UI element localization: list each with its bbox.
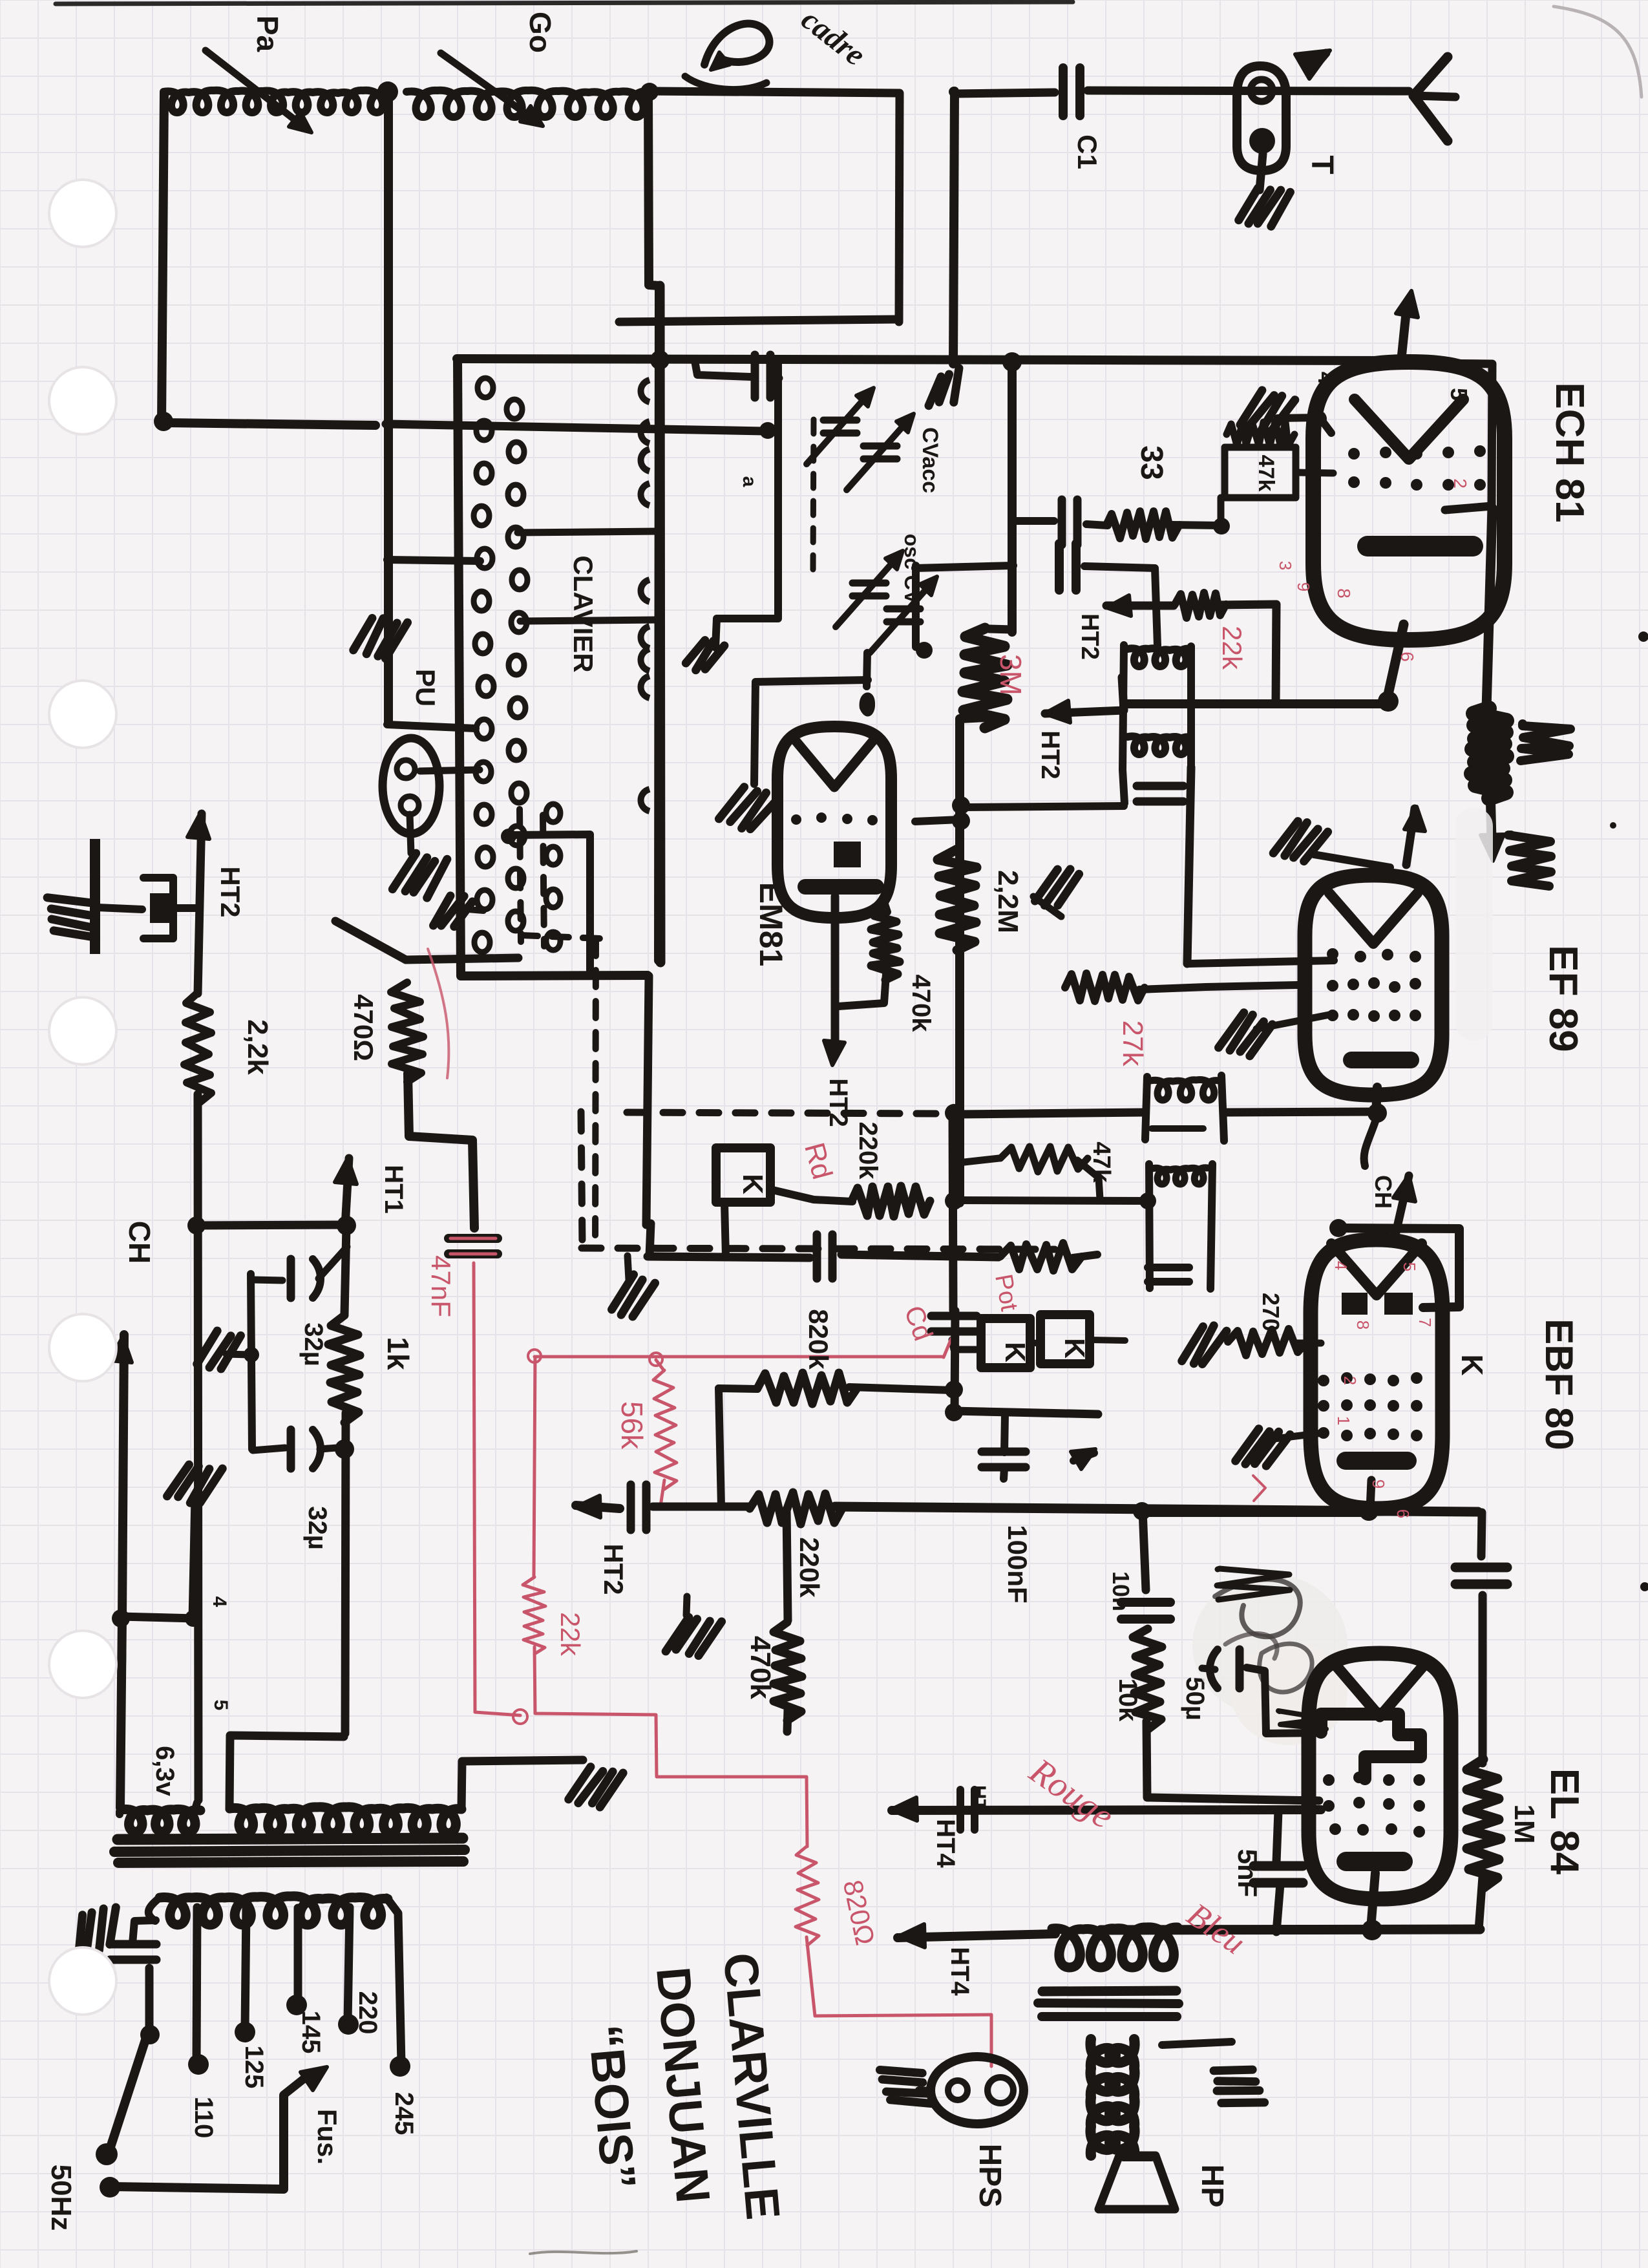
tap 245 xyxy=(386,1898,410,2077)
label HT2 ift1 xyxy=(1036,730,1064,779)
svg-text:9: 9 xyxy=(1369,1479,1388,1489)
svg-text:22k: 22k xyxy=(555,1612,586,1657)
capacitor 32u b xyxy=(291,1430,321,1468)
wire det row2 xyxy=(841,1255,998,1257)
wire 27k lead xyxy=(1139,985,1297,990)
label HT2 em81 xyxy=(824,1078,852,1127)
switch K box 3 xyxy=(1041,1315,1090,1364)
tube EF89 V xyxy=(1329,893,1417,944)
svg-text:EM81: EM81 xyxy=(753,882,789,967)
tube EBF80 rows xyxy=(1318,1372,1422,1441)
wire 10k down xyxy=(1146,1721,1319,1801)
svg-text:“BOIS”: “BOIS” xyxy=(578,2022,646,2191)
capacitor hv block bar xyxy=(90,839,100,954)
OPT core lines xyxy=(1038,1991,1179,2017)
IFT1 cap xyxy=(1137,786,1183,801)
svg-text:HT2: HT2 xyxy=(1036,730,1064,779)
wire cap to IFT1 xyxy=(1084,566,1157,646)
svg-text:56k: 56k xyxy=(615,1401,649,1450)
inductor bleu choke xyxy=(1052,1927,1178,1967)
capacitor link xyxy=(1059,544,1076,590)
node HT1 xyxy=(337,1216,356,1235)
svg-text:K: K xyxy=(1455,1354,1489,1375)
IFT1 long drop xyxy=(1187,767,1191,964)
label 470k em81 xyxy=(907,975,935,1033)
arrow at 100nF xyxy=(1071,1449,1095,1469)
svg-text:2: 2 xyxy=(1340,1376,1360,1385)
wire antenna row2 xyxy=(1088,90,1409,91)
punch holes xyxy=(49,180,116,2015)
label cadre xyxy=(795,2,872,72)
tap 125 xyxy=(235,1909,255,2042)
svg-text:22k: 22k xyxy=(1217,626,1247,670)
wire grid row el84 xyxy=(892,1810,1321,1810)
trimmer CVacc 2 xyxy=(847,414,914,490)
vertical 1476 xyxy=(953,1113,953,1310)
label K ebf xyxy=(1455,1354,1489,1375)
tube EL84 cathode bar xyxy=(1336,1852,1413,1871)
capacitor at 33 xyxy=(1062,500,1077,545)
wire clavier slant arm xyxy=(335,921,518,960)
tube EF89 stem xyxy=(1364,1087,1387,1166)
node junction Pa-Go xyxy=(154,81,659,431)
wire 1M bottom xyxy=(1479,1877,1483,1930)
label 470 ohm xyxy=(348,994,379,1061)
white streak over EF89 xyxy=(1455,808,1493,1041)
wire K2-K3 xyxy=(1031,1342,1041,1344)
label 10k xyxy=(1114,1679,1142,1722)
resistor 47k det xyxy=(1000,1243,1082,1271)
wire det row elbow xyxy=(650,1224,651,1256)
transformer core xyxy=(114,1838,465,1863)
svg-text:4: 4 xyxy=(1313,372,1340,385)
svg-text:470Ω: 470Ω xyxy=(348,994,379,1061)
capacitor line filter xyxy=(110,1944,156,1960)
label 32u b xyxy=(303,1506,332,1550)
arrow bus end up xyxy=(1396,291,1418,361)
svg-text:cadre: cadre xyxy=(795,2,872,72)
ground at oscillator bus xyxy=(353,615,408,661)
label CH left xyxy=(123,1221,156,1264)
clavier contact column A xyxy=(474,378,494,952)
wire dashed AVC v3 xyxy=(595,939,596,1245)
label 245 xyxy=(390,2092,418,2136)
clavier stub row b xyxy=(520,620,660,621)
wire clavier bus vertical xyxy=(660,286,660,962)
svg-text:K: K xyxy=(999,1342,1031,1362)
wire EF89 plate link xyxy=(960,1112,1145,1114)
ground HPS xyxy=(879,2057,933,2116)
edge specks xyxy=(530,631,1648,2254)
IFT2 left vertical xyxy=(1149,1164,1150,1288)
wire box to grid xyxy=(1296,472,1333,473)
capacitor 100nF xyxy=(982,1415,1026,1479)
wire cap to box xyxy=(773,377,779,378)
svg-text:270: 270 xyxy=(1258,1293,1284,1331)
label 5nF xyxy=(1232,1849,1263,1898)
tap 110 xyxy=(188,1907,209,2075)
tube EBF80 anode blocks xyxy=(1342,1293,1413,1315)
ground hv block xyxy=(47,891,96,944)
wire PU to clavier xyxy=(420,770,480,771)
label pin 5 xyxy=(1446,388,1472,401)
label ECH 81 xyxy=(1547,382,1592,522)
resistor 470k em81 xyxy=(871,910,900,980)
scribble label A xyxy=(1521,724,1570,761)
wire gnd470 xyxy=(686,1596,687,1615)
arrow HT2 2k2 xyxy=(187,813,209,839)
ground OPT xyxy=(1210,2058,1264,2116)
wire 270 to tube xyxy=(1296,1340,1321,1347)
loop antenna cadre symbol xyxy=(685,24,770,90)
wire heater v1 xyxy=(116,1812,123,1814)
red scribbles ebf xyxy=(1253,1476,1265,1501)
label Rd red xyxy=(798,1139,838,1183)
wire heater stub xyxy=(195,1803,197,1809)
connector PU outline xyxy=(383,738,439,834)
label 22k red xyxy=(1217,626,1247,670)
label EM81 xyxy=(753,882,789,967)
clavier wiper contacts on bus xyxy=(641,380,650,811)
node CH bottom xyxy=(112,1609,130,1627)
svg-text:10k: 10k xyxy=(1114,1679,1142,1722)
ground ECH81 g4 xyxy=(1240,387,1295,436)
coil box 68 coil xyxy=(1150,1080,1219,1129)
tube ECH81 cathode bar xyxy=(1357,536,1483,556)
svg-text:EL 84: EL 84 xyxy=(1542,1768,1587,1875)
tube EL84 rows xyxy=(1323,1772,1425,1838)
tap 145 xyxy=(286,1908,307,2015)
label 22k red2 xyxy=(555,1612,586,1657)
label 220 xyxy=(354,1991,382,2035)
wire EBF row out xyxy=(1133,1502,1369,1520)
svg-text:5: 5 xyxy=(1446,388,1472,401)
PU pin bottom xyxy=(401,796,419,814)
svg-text:470k: 470k xyxy=(745,1636,776,1699)
arrow EM81 HT2 xyxy=(824,1041,845,1065)
wire EM81 stem xyxy=(831,896,840,1052)
capacitor C1 xyxy=(1063,68,1080,116)
IFT1 left vertical xyxy=(1123,645,1125,803)
wire gnd stem mid xyxy=(193,1500,195,1620)
node 100nF xyxy=(945,1403,963,1421)
node IFT2 in xyxy=(1139,1192,1156,1209)
resistor 1M xyxy=(1467,1759,1501,1888)
wire 32u rail xyxy=(251,1274,252,1449)
wire K1 to 220k xyxy=(772,1190,852,1202)
coil box 68 sides xyxy=(1145,1076,1224,1141)
resistor 470k det2 xyxy=(774,1622,802,1721)
capacitor Cd xyxy=(931,1316,977,1331)
wire cadre right vertical xyxy=(899,93,900,322)
clavier extra contacts xyxy=(546,804,560,950)
wire stub cap osc xyxy=(695,361,750,377)
node 32u2 xyxy=(335,1439,354,1459)
svg-text:33: 33 xyxy=(1134,445,1168,480)
arrow HT2 ift1 xyxy=(1044,677,1124,723)
svg-text:2,2M: 2,2M xyxy=(992,870,1024,933)
black smudge swirls xyxy=(1215,1569,1326,1729)
label 33 xyxy=(1134,445,1168,480)
resistor 2,2k xyxy=(184,993,211,1104)
wire filter up xyxy=(132,1920,156,1944)
wire plate row el84 xyxy=(1101,1929,1480,1930)
svg-text:1M: 1M xyxy=(1508,1804,1540,1843)
ground ct xyxy=(568,1762,623,1812)
wire cadre left vertical xyxy=(648,90,659,960)
title CLARVILLE xyxy=(713,1951,790,2222)
red wire to HPS xyxy=(807,1937,991,2066)
svg-text:Fus.: Fus. xyxy=(312,2109,343,2165)
svg-text:110: 110 xyxy=(189,2097,218,2139)
label 56k red xyxy=(615,1401,649,1450)
svg-text:HT4: HT4 xyxy=(945,1947,974,1996)
wire 2k2 vertical xyxy=(198,814,202,993)
svg-text:5nF: 5nF xyxy=(1232,1849,1263,1898)
wire prim left hook xyxy=(149,1898,160,1921)
wire HT1 row xyxy=(196,1225,348,1225)
node bus-cadre xyxy=(650,350,670,370)
tube EL84 stem xyxy=(1362,1873,1382,1940)
svg-text:7: 7 xyxy=(1415,1318,1435,1327)
resistor screen fat xyxy=(1472,708,1506,798)
IFT2 cap xyxy=(1148,1267,1189,1282)
wire hv to 2k2 xyxy=(173,904,200,912)
wire EM81 left bracket xyxy=(754,680,868,784)
ground EBF g xyxy=(1235,1423,1322,1473)
PU pin top xyxy=(397,760,415,778)
capacitor 5nF xyxy=(1254,1811,1303,1932)
switch K box 2 xyxy=(981,1319,1031,1368)
red pin 3 xyxy=(1276,561,1295,570)
label HT4 a xyxy=(931,1819,960,1868)
wire CH vertical xyxy=(120,1335,124,1808)
wire 3M top jog xyxy=(989,629,1012,630)
svg-text:47k: 47k xyxy=(1254,455,1278,492)
capacitor 32u a xyxy=(291,1259,321,1298)
wire dot row link xyxy=(501,829,590,975)
ground 2,2M xyxy=(1035,863,1080,912)
label HT small xyxy=(968,1785,989,1811)
wire grid5 bracket xyxy=(1419,363,1492,510)
inductor Pa (antenna coil) xyxy=(164,90,388,112)
connector HPS xyxy=(931,2057,1024,2124)
wire cadre top xyxy=(651,91,899,93)
arrow HT2 vol xyxy=(575,1496,620,1518)
svg-text:K: K xyxy=(737,1174,768,1194)
red wire 56k bottom xyxy=(660,1480,664,1506)
tube EF89 envelope xyxy=(1305,875,1442,1095)
resistor 27k xyxy=(1065,973,1145,1001)
wire plate row xyxy=(1124,699,1388,708)
wire clavier vertical kb xyxy=(458,359,648,976)
arrow Fus xyxy=(284,2067,327,2095)
svg-text:3: 3 xyxy=(1276,561,1295,570)
wire 1476 cont xyxy=(955,1311,955,1412)
red wire main xyxy=(528,1350,944,1366)
node 820k xyxy=(945,1381,963,1399)
speaker cone HP xyxy=(1099,2156,1175,2209)
tube EBF80 stem xyxy=(1359,1480,1379,1521)
wire 220k to IFT2 xyxy=(954,1200,1148,1201)
wire OPT to gnd xyxy=(1162,2042,1232,2045)
svg-text:5: 5 xyxy=(210,1700,231,1711)
tube EF89 cathode bar xyxy=(1343,1052,1419,1068)
wire bus to contact row xyxy=(387,725,476,728)
label 32u a xyxy=(299,1322,328,1366)
wire det to vert xyxy=(1073,1255,1097,1258)
ground det xyxy=(611,1256,655,1320)
label 110 xyxy=(189,2097,218,2139)
wire ht coil left xyxy=(229,1735,344,1809)
svg-text:32µ: 32µ xyxy=(303,1506,332,1550)
tube EM81 top cap xyxy=(860,653,875,716)
red curve clavier xyxy=(428,949,449,1078)
wire det row xyxy=(648,1256,810,1258)
label CVacc xyxy=(918,427,942,493)
svg-text:145: 145 xyxy=(297,2011,325,2054)
wire 100n drop xyxy=(1143,1510,1146,1590)
svg-text:125: 125 xyxy=(240,2046,268,2089)
resistor 47k box xyxy=(1225,447,1296,498)
wire sec up right xyxy=(461,1761,462,1761)
arrow CH xyxy=(110,1337,132,1362)
wire screen chain xyxy=(1481,1512,1482,1556)
svg-text:245: 245 xyxy=(390,2092,418,2136)
svg-text:C1: C1 xyxy=(1072,134,1103,169)
resistor 820ohm red xyxy=(796,1846,819,1945)
svg-text:820Ω: 820Ω xyxy=(838,1877,881,1947)
svg-text:9: 9 xyxy=(1294,582,1313,591)
red pin 9 xyxy=(1294,582,1313,591)
svg-text:DONJUAN: DONJUAN xyxy=(646,1965,721,2205)
trimmer oscCV 2 xyxy=(870,577,937,653)
label HT2 2k2 xyxy=(215,866,246,917)
svg-text:4: 4 xyxy=(209,1596,230,1607)
label 4 tiny xyxy=(209,1596,230,1607)
svg-text:47nF: 47nF xyxy=(426,1255,456,1317)
capacitor 50u xyxy=(1202,1649,1240,1688)
red pins EBF xyxy=(1331,1261,1435,1518)
OPT secondary winding xyxy=(1110,2039,1135,2156)
wire dashed AGC bottom xyxy=(582,1248,1055,1249)
resistor 470ohm diagonal xyxy=(391,982,423,1082)
resistor 22k red xyxy=(523,1577,545,1654)
svg-text:HP: HP xyxy=(1195,2165,1229,2208)
wire box to stem xyxy=(1225,1112,1378,1112)
wire 47k diag leads xyxy=(964,1158,1100,1199)
svg-text:6: 6 xyxy=(1397,652,1417,662)
svg-text:CVacc: CVacc xyxy=(918,427,942,493)
wire cadre-joint xyxy=(949,87,959,97)
wire top link h xyxy=(915,566,1013,568)
wire x1002 drop xyxy=(646,976,649,1225)
node HT1 row xyxy=(187,1216,206,1235)
ground mid left xyxy=(167,1460,222,1507)
svg-text:a: a xyxy=(739,476,760,487)
tube EBF80 V xyxy=(1331,1244,1422,1295)
wire ground stub to contact xyxy=(387,560,480,561)
svg-text:HPS: HPS xyxy=(973,2144,1007,2208)
svg-text:Go: Go xyxy=(523,12,557,53)
wire 470k link xyxy=(838,900,887,1006)
wire left frame vertical xyxy=(162,93,164,423)
label HT2 vol xyxy=(598,1543,629,1595)
label 145 xyxy=(297,2011,325,2054)
ground T xyxy=(1238,183,1290,231)
wire box down xyxy=(1218,498,1225,525)
label Pot red xyxy=(989,1272,1022,1313)
red pin 6 xyxy=(1397,652,1417,662)
wire 1k down xyxy=(345,1413,346,1733)
white smudge blob xyxy=(1192,1574,1347,1745)
capacitor hv bracket xyxy=(143,878,173,938)
resistor 1k xyxy=(328,1315,360,1423)
IFT1 primary coil xyxy=(1128,648,1190,666)
wire rect v2 xyxy=(342,1735,344,1737)
label Fus xyxy=(312,2109,343,2165)
wire K3 right xyxy=(1090,1340,1125,1341)
svg-text:HT2: HT2 xyxy=(598,1543,629,1595)
label T xyxy=(1305,155,1339,174)
wire mid vertical xyxy=(1008,361,1017,632)
label 47nF red xyxy=(426,1255,456,1317)
label 220k xyxy=(854,1122,882,1180)
capacitor 47nF bars xyxy=(449,1238,498,1254)
wire gnd to contact xyxy=(460,909,483,911)
wire 820k right xyxy=(849,1387,953,1390)
arrow HT1 xyxy=(335,1158,357,1227)
label 1k xyxy=(381,1337,415,1370)
svg-text:6: 6 xyxy=(1393,1509,1413,1518)
red vertical 47nF xyxy=(474,1263,520,1715)
arrow screen down xyxy=(1481,789,1504,861)
capacitor screen xyxy=(1455,1567,1507,1584)
label Pa xyxy=(251,16,284,52)
wire HT1 down xyxy=(344,1227,346,1314)
red pin 8 xyxy=(1334,588,1354,599)
node AGC xyxy=(945,1104,963,1122)
node 3M-EM81 row1 xyxy=(952,796,970,814)
label HP xyxy=(1195,2165,1229,2208)
wire screen chain2 xyxy=(1479,1595,1487,1763)
label HT2 ech xyxy=(1076,613,1103,660)
OPT primary winding xyxy=(1090,2039,1115,2156)
wire gnd to cap xyxy=(1314,854,1390,867)
resistor 220k vol xyxy=(852,1186,930,1216)
tube ECH81 envelope xyxy=(1313,362,1505,640)
switch lever xyxy=(96,2025,160,2165)
wire 33 leads xyxy=(1086,518,1230,535)
node 3M-EM81 row2 xyxy=(952,812,970,830)
ground line filter xyxy=(69,1905,125,1955)
wire right col xyxy=(953,91,955,364)
resistor 10k xyxy=(1133,1629,1162,1730)
node bus-mid xyxy=(1002,352,1022,372)
wire vol row2 xyxy=(835,1507,1478,1512)
arrow EBF top xyxy=(1393,1175,1415,1235)
label 10n xyxy=(1108,1571,1134,1611)
tube EBF80 cathode bar xyxy=(1336,1452,1417,1470)
svg-text:6,3v: 6,3v xyxy=(151,1746,179,1797)
capacitor 10n xyxy=(1121,1602,1170,1619)
tube ECH81 stem xyxy=(1378,624,1404,712)
svg-text:4: 4 xyxy=(1331,1261,1351,1270)
label 47k xyxy=(1254,455,1278,492)
wire main bus HT xyxy=(457,359,1403,361)
wire cadre bottom xyxy=(619,319,898,322)
wire dashed gang xyxy=(813,419,814,571)
